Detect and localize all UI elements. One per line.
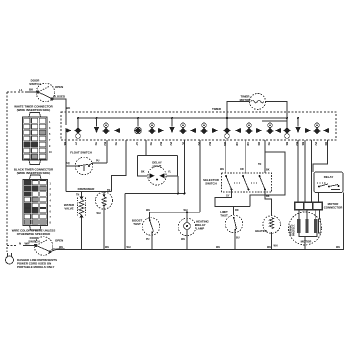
svg-text:TN: TN [94, 142, 97, 145]
wire timer motor right lead [266, 102, 288, 127]
svg-text:BK: BK [285, 142, 288, 146]
timer cam bus wire [77, 117, 287, 119]
svg-text:TN: TN [107, 189, 110, 192]
timer contact [235, 128, 241, 133]
timer contact [305, 128, 311, 133]
wire delay light feed [145, 140, 147, 156]
svg-text:RELAY: RELAY [324, 175, 334, 179]
svg-text:TN: TN [258, 163, 261, 166]
heater R1 [263, 216, 281, 250]
timer contact [295, 117, 300, 133]
svg-text:LAMP: LAMP [196, 227, 204, 231]
relay K2 [314, 172, 343, 193]
svg-text:RD: RD [257, 142, 260, 146]
wire N dashed segment [7, 245, 18, 247]
timer contact [256, 128, 262, 133]
svg-text:SWITCH: SWITCH [28, 240, 39, 244]
svg-text:OR: OR [246, 142, 249, 146]
wire left power-cord dashed rail [6, 92, 8, 252]
svg-text:WH: WH [181, 238, 185, 241]
svg-text:THST: THST [133, 222, 141, 226]
svg-text:PU: PU [169, 142, 172, 146]
plug P1 (power cord) [6, 253, 14, 264]
svg-text:BK: BK [63, 142, 66, 146]
wire manifold y193.5 [125, 193, 185, 195]
wire delay light to manifold [177, 176, 179, 194]
wire timer to lower manifold via jog [112, 140, 127, 192]
svg-text:PU: PU [314, 142, 317, 146]
svg-text:WH: WH [216, 246, 220, 249]
timer contact [148, 123, 155, 134]
wire neutral bottom bus WH [50, 250, 344, 252]
svg-text:CLOSED: CLOSED [53, 95, 65, 99]
wire relay feed [313, 140, 328, 172]
svg-text:SWITCH: SWITCH [205, 182, 216, 186]
svg-text:BK: BK [266, 169, 270, 172]
svg-text:TN: TN [149, 142, 152, 145]
timer contact [169, 117, 174, 133]
timer contact [223, 117, 230, 138]
water valve K1 coil [78, 192, 86, 250]
svg-text:TN: TN [114, 142, 117, 145]
timer contact [102, 123, 109, 134]
svg-text:PU: PU [146, 238, 150, 241]
svg-text:RD: RD [324, 142, 327, 146]
wire selector feed 3 [264, 140, 266, 173]
svg-text:RD: RD [235, 209, 239, 212]
heating delay lamp DS2 [178, 212, 196, 249]
svg-text:WH: WH [336, 246, 340, 249]
svg-text:WH: WH [220, 168, 224, 171]
svg-text:WH: WH [274, 245, 278, 248]
node junction [177, 193, 179, 195]
svg-text:BU: BU [295, 142, 298, 146]
timer contact [74, 117, 81, 138]
wire selector to heater [265, 190, 272, 216]
svg-text:PROTECT.: PROTECT. [293, 224, 296, 236]
door switch S1 (top) [26, 83, 55, 102]
svg-text:BK: BK [266, 195, 270, 198]
svg-text:DISPENSER: DISPENSER [78, 187, 96, 191]
wire timer to float switch [65, 133, 67, 192]
timer T1 dashed enclosure [61, 112, 336, 140]
svg-text:WH: WH [25, 242, 30, 246]
wire to lower manifold [124, 194, 126, 250]
timer contact [266, 123, 273, 134]
timer contact [212, 128, 218, 133]
svg-text:WH: WH [146, 209, 150, 212]
svg-text:GY: GY [135, 142, 138, 146]
svg-text:L1: L1 [19, 88, 23, 92]
svg-text:BU: BU [159, 142, 162, 146]
svg-text:(WIRE INSERTION SIDE): (WIRE INSERTION SIDE) [17, 108, 51, 112]
wire timer motor left lead [227, 102, 250, 119]
delay light DS1 [148, 167, 166, 185]
svg-text:VT: VT [74, 142, 77, 146]
motor M2 [289, 210, 322, 250]
svg-text:WH: WH [184, 209, 188, 212]
svg-text:WH: WH [267, 246, 271, 249]
svg-text:BU: BU [208, 142, 211, 146]
svg-text:WH: WH [223, 142, 226, 146]
wire from timer x200 down [199, 140, 201, 212]
svg-text:CONNECTOR: CONNECTOR [324, 206, 343, 210]
svg-text:HEATER: HEATER [255, 229, 268, 233]
wire L1 dashed power-cord line (top) [7, 91, 26, 93]
svg-text:PU: PU [96, 160, 100, 163]
wire motor feeds [297, 140, 299, 202]
motor connector J3 [295, 202, 323, 210]
timer contact [179, 123, 186, 134]
wire selector to limit thst [215, 190, 250, 207]
timer contact [134, 117, 141, 134]
selector switch S4 [222, 173, 272, 192]
svg-text:GY: GY [226, 195, 230, 198]
svg-text:PORTABLE MODELS ONLY: PORTABLE MODELS ONLY [17, 265, 54, 269]
boost thermostat S5 [142, 212, 160, 249]
wire manifold y212.2 [150, 211, 201, 213]
door switch S2 (bottom) [23, 237, 53, 256]
svg-text:YL: YL [181, 142, 184, 146]
timer contact [158, 128, 164, 133]
wire timer drop x184.5 [184, 140, 186, 194]
wire jog to relay-side riser [250, 152, 285, 207]
svg-text:OPEN: OPEN [55, 85, 63, 89]
wire selector feed 2 [245, 140, 247, 173]
timer contacts group [66, 117, 330, 138]
svg-text:BK: BK [141, 171, 145, 174]
timer contact [200, 123, 207, 134]
timer contact [283, 117, 290, 138]
timer motor M1 [250, 94, 266, 110]
svg-text:OPEN: OPEN [55, 239, 63, 243]
svg-text:BU: BU [236, 237, 240, 240]
svg-text:YL: YL [168, 171, 172, 174]
wire relay to connector [318, 193, 320, 203]
svg-text:WH: WH [97, 212, 101, 215]
timer contact [94, 117, 99, 133]
svg-text:AQ: AQ [66, 162, 70, 165]
svg-text:(WIRE INSERTION SIDE): (WIRE INSERTION SIDE) [17, 171, 51, 175]
svg-text:WH: WH [127, 246, 131, 249]
svg-text:WH: WH [105, 246, 109, 249]
svg-text:VALVE: VALVE [64, 207, 73, 211]
dispenser L2 [95, 192, 112, 250]
svg-text:N: N [19, 242, 21, 246]
timer contact [323, 128, 329, 133]
svg-text:WH: WH [59, 246, 63, 249]
float switch S3 [66, 140, 107, 175]
svg-text:TIMER: TIMER [212, 107, 222, 111]
components group [59, 133, 343, 250]
svg-text:BU: BU [103, 142, 106, 146]
limit thermostat S6 [225, 215, 243, 249]
wire selector feed 1 [225, 140, 227, 173]
wire relay to neutral bus riser [343, 193, 345, 250]
timer contact [114, 128, 120, 133]
timer contact [313, 123, 320, 134]
timer contact [66, 128, 72, 133]
white timer connector J1 [23, 113, 53, 165]
svg-text:THST: THST [220, 214, 228, 218]
svg-text:TN: TN [267, 142, 270, 145]
svg-text:MOTOR: MOTOR [301, 240, 313, 244]
timer contact [275, 128, 281, 133]
svg-text:TN: TN [76, 194, 79, 197]
timer contact [190, 128, 196, 133]
wire BK from door switch to timer [52, 99, 66, 125]
black timer connector J2 [23, 175, 52, 230]
svg-text:BK: BK [301, 142, 304, 146]
svg-text:PU: PU [197, 142, 200, 146]
svg-text:OR: OR [235, 142, 238, 146]
svg-text:FLOAT SWITCH: FLOAT SWITCH [70, 151, 92, 155]
svg-text:SWITCH: SWITCH [29, 82, 40, 86]
svg-text:OR: OR [240, 168, 244, 171]
timer contact [245, 123, 252, 134]
wire manifold y191.5 [66, 191, 112, 193]
